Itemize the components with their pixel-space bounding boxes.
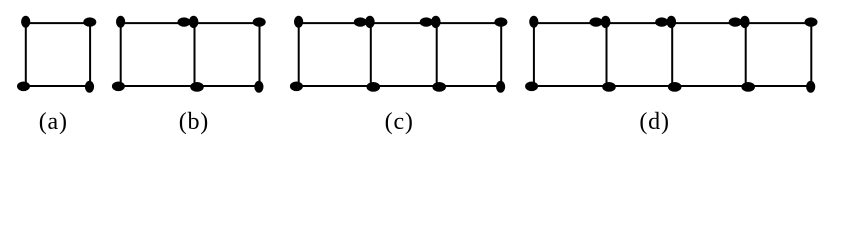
svg-text:(a): (a) <box>39 109 68 135</box>
wire c-bottom-2 <box>371 85 437 87</box>
node b-top-right <box>253 17 266 26</box>
wire a-top-1 <box>26 22 90 24</box>
wire b-vertical-1 <box>120 23 122 86</box>
wire b-top-1 <box>121 22 195 24</box>
node c-bottom-left <box>290 82 303 92</box>
node b-top-mid1-right-dot <box>189 16 199 28</box>
node d-top-mid2-right-dot <box>667 16 677 28</box>
node c-top-mid1-right-dot <box>365 16 375 28</box>
wire b-vertical-2 <box>194 23 196 86</box>
svg-text:(c): (c) <box>385 109 414 135</box>
node b-bottom-right <box>254 81 263 93</box>
wire d-top-4 <box>746 22 812 24</box>
node a-top-right <box>83 17 96 26</box>
node a-bottom-right <box>85 81 94 93</box>
node a-bottom-left <box>17 82 30 92</box>
wire a-vertical-2 <box>89 23 91 86</box>
node d-top-right <box>805 17 818 26</box>
wire d-vertical-1 <box>533 23 535 86</box>
wire d-bottom-4 <box>746 85 812 87</box>
wire c-vertical-4 <box>500 23 502 86</box>
node c-bottom-mid1 <box>367 82 381 92</box>
wire c-bottom-1 <box>299 85 371 87</box>
wire c-top-1 <box>299 22 371 24</box>
wire d-vertical-4 <box>745 23 747 86</box>
svg-text:(d): (d) <box>639 109 669 135</box>
node c-bottom-mid2 <box>432 82 446 92</box>
wire a-bottom-1 <box>26 85 90 87</box>
wire d-bottom-1 <box>534 85 607 87</box>
node d-bottom-mid1 <box>602 82 616 92</box>
wire b-bottom-1 <box>121 85 195 87</box>
wire d-top-1 <box>534 22 607 24</box>
node d-bottom-mid3 <box>741 82 755 92</box>
node c-top-mid1-left-dot <box>354 17 367 26</box>
node d-top-mid1-right-dot <box>601 16 611 28</box>
wire c-vertical-1 <box>298 23 300 86</box>
node b-bottom-left <box>112 82 125 92</box>
wire d-bottom-3 <box>672 85 746 87</box>
wire d-vertical-5 <box>810 23 812 86</box>
node d-bottom-mid2 <box>668 82 682 92</box>
node b-top-left <box>116 16 125 28</box>
node b-bottom-mid1 <box>190 82 204 92</box>
node d-bottom-left <box>525 82 538 92</box>
wire d-vertical-3 <box>671 23 673 86</box>
wire d-vertical-2 <box>606 23 608 86</box>
wire d-top-3 <box>672 22 746 24</box>
node d-top-mid3-right-dot <box>740 16 750 28</box>
node d-top-mid2-left-dot <box>655 17 668 26</box>
wire b-vertical-3 <box>259 23 261 86</box>
node a-top-left <box>21 16 30 28</box>
node c-top-mid2-right-dot <box>431 16 441 28</box>
node c-top-left <box>294 16 303 28</box>
node d-top-mid3-left-dot <box>729 17 742 26</box>
node b-top-mid1-left-dot <box>178 17 191 26</box>
wire c-bottom-3 <box>437 85 502 87</box>
wire d-top-2 <box>607 22 673 24</box>
node c-bottom-right <box>496 81 505 93</box>
wire c-top-3 <box>437 22 502 24</box>
node c-top-mid2-left-dot <box>420 17 433 26</box>
node d-top-mid1-left-dot <box>590 17 603 26</box>
node d-top-left <box>529 16 538 28</box>
node c-top-right <box>494 17 507 26</box>
wire c-top-2 <box>371 22 437 24</box>
wire c-vertical-2 <box>370 23 372 86</box>
wire c-vertical-3 <box>436 23 438 86</box>
wire a-vertical-1 <box>25 23 27 86</box>
node d-bottom-right <box>806 81 815 93</box>
wire b-bottom-2 <box>195 85 260 87</box>
wire b-top-2 <box>195 22 260 24</box>
svg-text:(b): (b) <box>179 109 209 135</box>
wire d-bottom-2 <box>607 85 673 87</box>
